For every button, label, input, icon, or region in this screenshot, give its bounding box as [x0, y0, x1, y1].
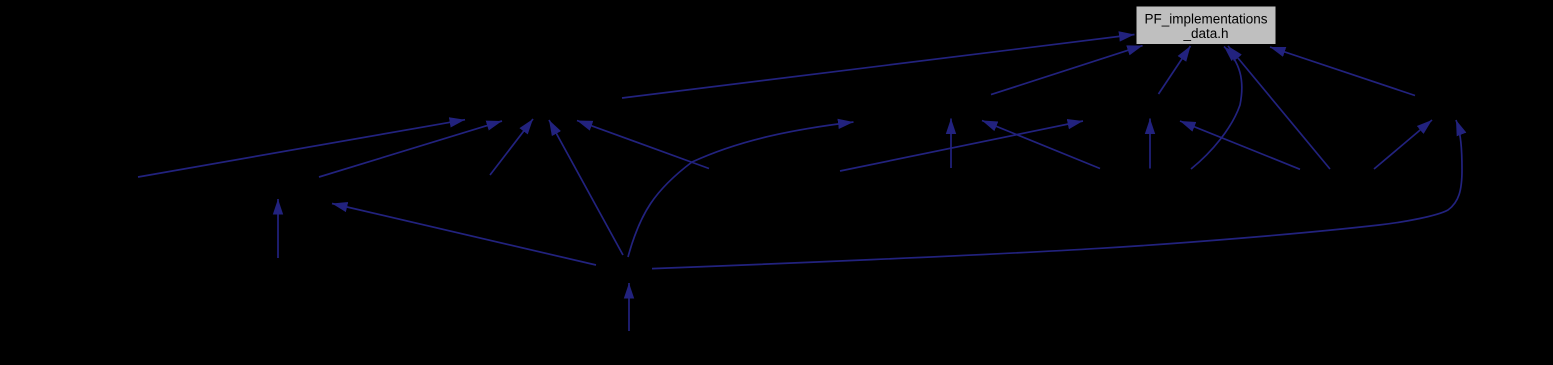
edge E5: node_d -> hub node — [577, 121, 709, 169]
edge E20: node_n -> PF_implementations_data.h (curved) — [1191, 47, 1242, 170]
edge E13: bottom node -> node_r (long curve) — [652, 120, 1462, 269]
edge E19: node_l -> PF_implementations_data.h — [1159, 46, 1191, 94]
edge E21: node_o -> PF_implementations_data.h — [1228, 46, 1330, 169]
edge E1: node_a -> hub node — [138, 120, 465, 177]
edge E6: hub node -> PF_implementations_data.h — [622, 35, 1135, 99]
edge E4: bottom node -> hub node — [549, 120, 623, 255]
edge E22: node_p -> PF_implementations_data.h — [1270, 47, 1415, 96]
edge E16: node_q -> node_r — [1374, 120, 1432, 169]
edge E15: leaf node -> node_k (vertical) — [277, 199, 279, 258]
edge E14: leaf node -> bottom node (vertical) — [628, 283, 630, 331]
edge E8: node_f -> node_e (vertical) — [950, 119, 952, 169]
edge E10: node_i -> node_j — [840, 121, 1083, 171]
edge E11: node_h -> PF_implementations_data.h — [991, 46, 1143, 95]
edge E18: node_m -> node_l (vertical) — [1149, 119, 1151, 169]
node PF_implementations_data.h — [1136, 6, 1276, 45]
svg-text:PF_implementations: PF_implementations — [1144, 12, 1267, 27]
edge E9: node_g -> node_h — [982, 121, 1100, 169]
edge E2: node_b -> hub node — [319, 121, 502, 177]
edge E7: bottom node -> node_e (curved) — [628, 122, 854, 257]
edge E3: node_c -> hub node — [490, 119, 533, 175]
svg-text:_data.h: _data.h — [1182, 26, 1228, 41]
edge E17: node_q2 -> node_l — [1180, 121, 1300, 169]
edge E12: bottom node -> node_k — [332, 204, 596, 266]
